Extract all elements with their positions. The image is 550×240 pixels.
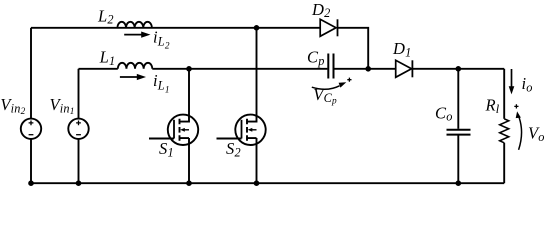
S2 gate bar [241,120,243,139]
plus mark Vo [514,104,518,108]
wire: S2 gate lead [217,138,242,140]
svg-text:S1: S1 [159,139,174,159]
inductor L1 [118,63,153,69]
arrow Vo polarity arc [516,111,522,149]
inductor L2 [117,22,151,28]
S2 channel bar [246,119,248,141]
svg-text:iL1: iL1 [153,71,170,95]
wire: bottom rail [31,182,504,184]
junction: Cp - D2 node [365,66,371,72]
arrow iL1 [120,74,146,80]
transistor S1 [149,69,198,183]
wire: mid rail L1 coil to Cp left plate [152,68,327,70]
source Vin2 [21,119,41,139]
svg-text:Vin2: Vin2 [0,95,25,117]
svg-text:Vin1: Vin1 [50,95,75,117]
svg-text:Vo: Vo [528,124,545,144]
capacitor Co [447,130,471,135]
svg-text:Cp: Cp [307,48,325,68]
capacitor Cp [328,54,333,79]
wire: left branch vertical lower (Vin2 to bottom rail) [30,139,32,183]
svg-text:D1: D1 [392,39,411,59]
wire: Co branch upper [457,69,459,129]
wire: S2 drain from top rail into circle [247,28,257,122]
svg-text:L1: L1 [99,48,116,68]
junction: bottom rail / Vin1 [76,180,82,186]
wire: S2 source to bottom rail [247,138,257,183]
plus mark VCp [347,78,351,82]
wire: mid rail Cp right plate to D1 anode [334,68,395,70]
junction: bottom rail / Vin2 [28,180,34,186]
diode D1 [396,60,413,77]
wire: S1 drain from mid rail into circle [180,69,190,122]
svg-text:D2: D2 [311,0,330,20]
wire: S1 source to bottom rail [180,138,190,183]
junction: top rail / S2 drain [254,25,260,31]
wire: Co branch lower [457,135,459,183]
wire: mid rail D1 cathode to right corner [412,68,504,70]
arrow VCp polarity arc [312,82,347,89]
svg-text:Co: Co [435,103,453,123]
S1 channel bar [179,119,181,141]
S1 gate bar [173,120,175,139]
resistor Rl [500,119,509,143]
wire: top rail from left corner to D2 anode [31,27,320,29]
wire: top rail D2 cathode to corner and drop to Cp node [338,28,369,69]
junction: mid rail / S1 drain [186,66,192,72]
svg-text:Rl: Rl [485,96,500,116]
junction: bottom rail / S1 source [186,180,192,186]
junction: D1 cathode / Co top [456,66,462,72]
svg-text:iL2: iL2 [153,27,170,51]
arrow iL2 [124,32,150,38]
arrow io [509,69,515,94]
wire: mid rail corner to L1 coil [79,68,118,70]
svg-text:S2: S2 [226,139,241,159]
svg-text:io: io [522,74,533,94]
wire: Vin1 vertical upper (to mid rail corner) [78,69,80,119]
transistor S2 [217,28,266,183]
wire: Vin1 vertical lower [78,139,80,183]
S2 body arrow [251,129,256,131]
svg-text:L2: L2 [97,6,114,26]
wire: left branch vertical upper (Vin2 to top rail) [30,28,32,119]
diode D2 [320,19,337,36]
wire: right column above Rl [503,69,505,119]
S1 body arrow [184,129,189,131]
source Vin1 [68,119,88,139]
wire: right column below Rl to bottom rail [503,143,505,183]
wire: S1 gate lead [149,138,174,140]
junction: bottom rail / Co bottom [456,180,462,186]
junction: bottom rail / S2 source [254,180,260,186]
